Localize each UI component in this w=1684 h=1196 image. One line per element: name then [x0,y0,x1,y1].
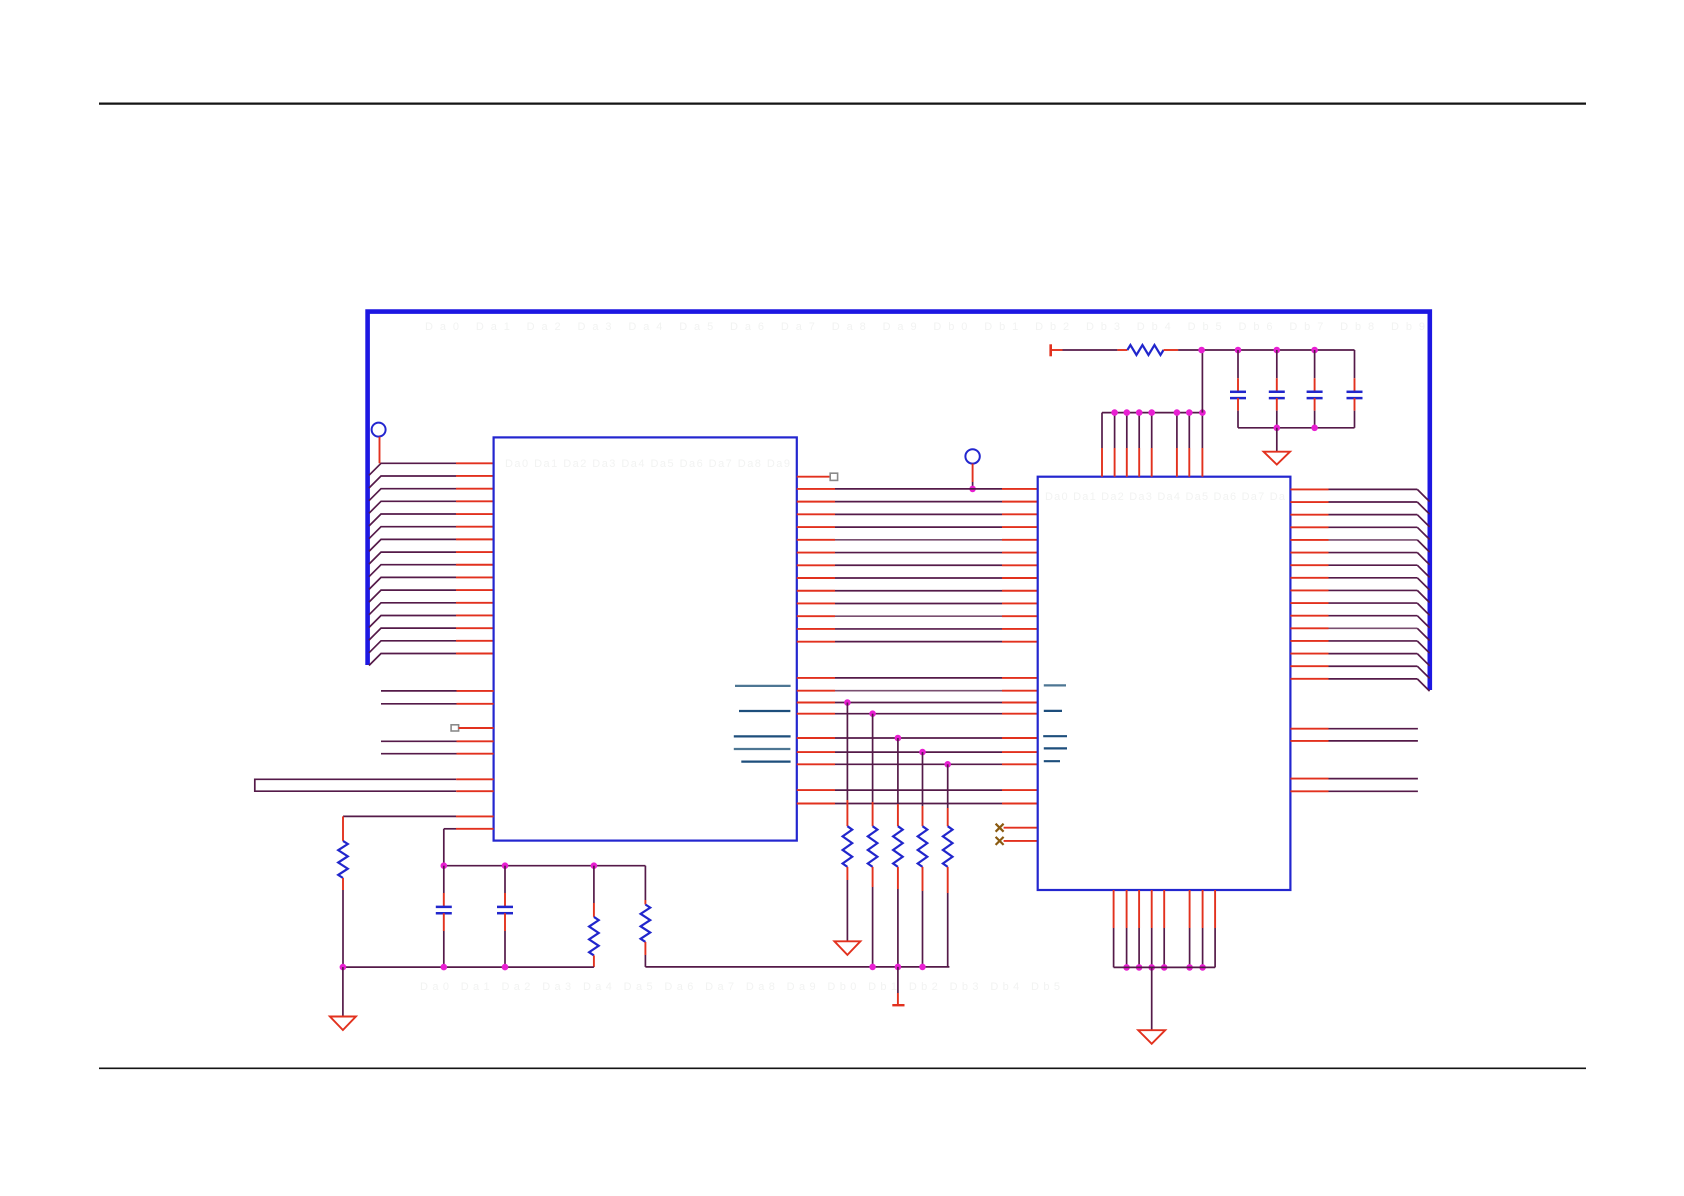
pin line U1 right-inner 1 [735,685,791,687]
wire: long fork/bus outline into U1 pins [255,779,494,791]
wire: thick blue bus (top / left / right trunk) [368,312,1430,690]
wire: U2 bottom pin drop 8 [1214,890,1216,967]
node: no-connect X 1 on U2 left [996,824,1038,832]
ground G4 [1138,967,1165,1043]
U2: right IC block [1038,477,1291,890]
capacitor C3 [1230,350,1246,428]
node J1: circle connector top-left [372,423,386,464]
pin line U2 left-inner 5 [1044,760,1060,762]
pin line U2 left-inner 3 [1043,735,1067,737]
wire: U1->net square S2 [797,473,838,480]
wire: bundle drop 6 into U2 top [1176,413,1178,477]
wire: U1-U2 lower row 2 [797,690,1038,692]
wire: U2 bottom pin drop 6 [1189,890,1191,967]
wire: left bus entry row 1 [369,463,494,475]
wire: link from supply node down to bundle rail [1201,350,1203,413]
wire: U2 bottom pin drop 7 [1202,890,1204,967]
wire: bundle drop 7 into U2 top [1188,413,1190,477]
wire: power stub below bottom rail [892,967,904,1005]
wire: U2 right bus entry row 14 [1290,654,1429,666]
wire: drop to R7 [922,752,924,826]
wire: left bus entry row 5 [369,514,494,526]
wire: cap bank bottom rail [1238,427,1355,429]
resistor R8 [943,826,953,867]
wire: U2 right bus entry row 16 [1290,679,1429,691]
wire: left bus entry row 9 [369,565,494,577]
capacitor C6 [1347,350,1363,428]
node junction dot row->R6 [895,735,902,742]
wire: U2 bottom pin drop 3 [1138,890,1140,967]
capacitor C2 [497,866,513,967]
wire: left bus entry row 13 [369,615,494,627]
pin line U2 left-inner 2 [1044,710,1062,712]
wire: U2 right stub 4 [1290,790,1418,792]
wire: U1-U2 lower row 5 [797,737,1038,739]
node dots on supply rail [1198,347,1318,354]
wire: U1-U2 data row 2 [797,501,1038,503]
wire: R7 bottom to bottom rail [922,867,924,967]
wire: corner wire to C1 node [444,829,494,866]
wire: R4 bottom to ground G3 [846,867,848,941]
wire: bundle drop 3 into U2 top [1126,413,1128,477]
wire: U2 right bus entry row 10 [1290,603,1429,615]
wire: U1-U2 data row 6 [797,552,1038,554]
node J2: circle connector above middle bus [965,449,979,492]
wire: left bus entry row 16 [369,654,494,666]
pin line U1 right-inner 3 [734,735,791,737]
wire: left bus entry row 15 [369,641,494,653]
wire: U2 right bus entry row 6 [1290,553,1429,565]
wire: U2 right stub 2 [1290,740,1418,742]
resistor R1 [338,841,348,878]
wire: R5 bottom to bottom rail [872,867,874,967]
svg-text:Da0 Da1 Da2 Da3 Da4 Da5 Da6 Da: Da0 Da1 Da2 Da3 Da4 Da5 Da6 Da7 Da8 Da9 [505,458,790,470]
resistor R6 [893,826,903,867]
wire: U1-U2 data row 4 [797,526,1038,528]
wire: drop to R4 [846,703,848,827]
pin line U2 left-inner 4 [1044,747,1067,749]
wire: R8 bottom to bottom rail [947,867,949,967]
wire: U2 right bus entry row 2 [1290,502,1429,514]
resistor R3 [644,866,646,905]
svg-text:Da0 Da1 Da2 Da3 Da4 Da5 Da6 Da: Da0 Da1 Da2 Da3 Da4 Da5 Da6 Da7 Da8 Da9 … [420,981,1060,993]
capacitor C4 [1269,350,1285,428]
wire: U2 bottom pin drop 1 [1113,890,1115,967]
pin line U1 right-inner 4 [734,748,791,750]
wire: U2 right bus entry row 8 [1290,578,1429,590]
wire: U1-U2 data row 3 [797,513,1038,515]
wire: U1-U2 data row 11 [797,615,1038,617]
node junction dot row->R4 [844,699,851,706]
wire: bundle drop 5 into U2 top [1151,413,1153,477]
wire: R10 to cap bank rail [1164,349,1355,351]
wire: mid node rail y=866 [444,865,646,867]
wire: U2 right bus entry row 12 [1290,628,1429,640]
wire: U1-U2 lower row 8 [797,789,1038,791]
U1: left IC block [494,437,797,840]
wire: U2 right bus entry row 3 [1290,515,1429,527]
wire: U1 left pin stub 1 [381,690,494,692]
wire: left bus entry row 4 [369,501,494,513]
node junction dots on mid rail [441,862,598,869]
resistor R10 (series supply) [1127,345,1163,355]
wire: U1 left pin stub 2 [381,703,494,705]
pin line U2 left-inner 1 [1044,684,1066,686]
node junction dot row->R5 [869,710,876,717]
wire: bottom rail left segment [343,966,594,968]
wire: left bus entry row 6 [369,527,494,539]
wire: supply to R10 [1063,349,1128,351]
ground G1 [330,967,356,1030]
wire: drop to R8 [947,764,949,826]
wire: top bundle rail y=412.6 [1102,412,1202,414]
wire: left bus entry row 2 [369,476,494,488]
wire: U1-U2 lower row 7 [797,763,1038,765]
wire: drop to R6 [897,738,899,826]
wire: left bus entry row 8 [369,552,494,564]
wire: U1-U2 data row 9 [797,590,1038,592]
node junction dot row->R7 [919,749,926,756]
wire: U1-U2 data row 5 [797,539,1038,541]
wire: U1-U2 lower row 3 [797,702,1038,704]
wire: bottom rail right segment [645,966,949,968]
wire: U1 left pin stub 3 [381,740,494,742]
capacitor C1 [436,866,452,967]
pin line U1 right-inner 5 [741,760,790,762]
node: supply stub terminal [1051,344,1063,356]
wire: corner wire to R1 [343,816,494,841]
wire: U1-U2 data row 7 [797,564,1038,566]
wire: U1-U2 data row 13 [797,641,1038,643]
wire: U2 right bus entry row 11 [1290,616,1429,628]
wire: U2 right stub 3 [1290,778,1418,780]
node junction dot row->R8 [944,761,951,768]
wire: bundle drop 1 into U2 top [1101,413,1103,477]
wire: U1 left pin stub 4 [381,753,494,755]
ground G2 [1264,428,1290,465]
wire: R1 bottom to ground rail [342,878,344,967]
resistor R2 [593,866,595,917]
wire: left bus entry row 11 [369,590,494,602]
wire: U2 right stub 1 [1290,728,1418,730]
ground G3 [834,941,860,955]
wire: U2 bottom pin drop 2 [1126,890,1128,967]
wire: bundle drop 8 into U2 top [1201,413,1203,477]
resistor R5 [868,826,878,867]
wire: U1-U2 data row 12 [797,628,1038,630]
capacitor C5 [1307,350,1323,428]
wire: U1-U2 lower row 6 [797,751,1038,753]
wire: U2 bottom rail [1114,966,1216,968]
wire: U2 right bus entry row 5 [1290,540,1429,552]
pin line U1 right-inner 2 [739,710,790,712]
wire: U2 right bus entry row 15 [1290,666,1429,678]
wire: U1-U2 data row 8 [797,577,1038,579]
wire: U2 right bus entry row 9 [1290,590,1429,602]
wire: bundle drop 2 into U2 top [1114,413,1116,477]
wire: U2 right bus entry row 7 [1290,565,1429,577]
wire: bundle drop 4 into U2 top [1138,413,1140,477]
wire: left bus entry row 12 [369,603,494,615]
wire: U1-U2 lower row 1 [797,677,1038,679]
resistor R4 [843,826,853,867]
wire: left bus entry row 10 [369,577,494,589]
wire: U2 right bus entry row 1 [1290,489,1429,501]
wire: U1-U2 lower row 9 [797,803,1038,805]
wire: U1-U2 data row 10 [797,602,1038,604]
wire: U1-U2 data row 1 [797,488,1038,490]
wire: left bus entry row 3 [369,489,494,501]
wire: U1-U2 lower row 4 [797,713,1038,715]
wire: U2 right bus entry row 4 [1290,527,1429,539]
node: no-connect X 2 on U2 left [996,837,1038,845]
wire: left bus entry row 14 [369,628,494,640]
node dots bottom rail left [340,964,509,971]
resistor R7 [918,826,928,867]
wire: U2 bottom pin drop 5 [1163,890,1165,967]
wire: U2 right bus entry row 13 [1290,641,1429,653]
wire: drop to R5 [872,714,874,827]
node: net label square S1 on U1 left [451,725,494,731]
wire: left bus entry row 7 [369,539,494,551]
wire: U2 bottom pin drop 4 [1151,890,1153,967]
wire: R6 bottom to bottom rail [897,867,899,967]
